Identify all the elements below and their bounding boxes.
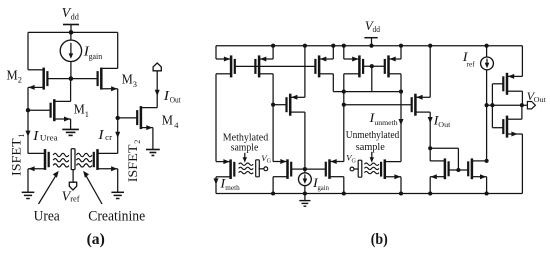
node gate bias (fig a) [69, 76, 74, 81]
label V_G (left) [261, 154, 271, 165]
svg-text:cr: cr [105, 132, 112, 142]
svg-text:Out: Out [438, 120, 451, 129]
label Urea [34, 209, 61, 225]
node line2-PDdrain junction [342, 103, 346, 107]
current arrow I_Out (fig b) [428, 117, 433, 123]
node PE source rail junction [399, 44, 403, 48]
label V_ref [62, 189, 80, 204]
annotation arrow sample to ISFET (right) [370, 152, 374, 163]
transistor PA [216, 55, 235, 77]
wire PC source up [332, 46, 334, 59]
ground M4 source [146, 150, 160, 156]
wire N_m2 gate lead [458, 169, 468, 171]
transistor P_o2 [503, 116, 522, 138]
transistor N_mid [287, 94, 305, 116]
node V_out junction [520, 103, 524, 107]
transistor MB1 follower (left) [273, 159, 291, 179]
ground I_gain (fig b) [299, 201, 310, 207]
wire gate line PD-PE [363, 65, 384, 67]
wire PA drain down to ISFET [215, 74, 217, 162]
terminal V_ref [69, 182, 76, 190]
current source I_gain (fig b) [299, 173, 312, 186]
wire M3 drain up to rail [117, 32, 119, 68]
node bottom Nm2 junction [485, 191, 489, 195]
label I_meth [219, 175, 240, 192]
node bottom MB1 junction [271, 191, 275, 195]
wire M3 source down to ISFET2 [117, 89, 119, 154]
reference electrode bar (fig a) [71, 149, 75, 183]
current arrow I_unmeth [399, 119, 404, 125]
terminal I_Out output (fig a) [153, 63, 161, 71]
wire ISFET meth source down [215, 177, 217, 194]
wire PE source up [400, 46, 402, 59]
svg-text:ISFET: ISFET [10, 138, 24, 176]
wire ground stub (fig b) [304, 194, 306, 201]
wire MB2 drain down [343, 177, 345, 194]
wire M3 gate lead [71, 78, 98, 80]
transistor M3 [98, 68, 118, 92]
label I_cr [97, 128, 112, 143]
label V_G (right) [346, 154, 356, 165]
node PD-PE diode tap [370, 64, 374, 68]
node follower gate junction (left) [303, 167, 307, 171]
wire PB drain down [272, 74, 274, 162]
wire diode drop PD-PE [371, 66, 373, 91]
svg-text:ref: ref [70, 194, 80, 204]
ISFET ISFET2 [76, 149, 117, 171]
wire PD drain down [343, 74, 345, 162]
label I_gain (fig b) [312, 175, 329, 192]
ISFET unmethylated sample [364, 159, 401, 179]
label M4 [162, 113, 179, 130]
terminal V_G (left) [264, 167, 268, 171]
annotation arrow Urea to ISFET1 gate [39, 171, 59, 204]
svg-text:ISFET: ISFET [126, 144, 140, 182]
transistor N_m1 [430, 158, 448, 179]
node N_m2 drain I_ref junction [485, 159, 489, 163]
wire V_out node line [487, 104, 528, 106]
svg-text:dd: dd [71, 12, 80, 22]
svg-text:gain: gain [89, 51, 103, 61]
node bottom ISFET-unmeth junction [399, 191, 403, 195]
wire line1 horizontal [333, 91, 401, 93]
transistor P_o1 [503, 73, 522, 95]
node M1 gate junction [26, 108, 30, 112]
wire V_G to electrode (right) [354, 168, 358, 170]
annotation arrow Creatinine to ISFET2 gate [83, 171, 102, 204]
node PC source rail junction [331, 44, 335, 48]
svg-text:(a): (a) [87, 231, 105, 248]
svg-text:Creatinine: Creatinine [88, 209, 145, 225]
wire M1 source down [70, 119, 72, 129]
svg-text:Urea: Urea [40, 132, 58, 142]
svg-text:I: I [97, 128, 105, 143]
svg-text:meth: meth [225, 183, 240, 192]
wire MB1 drain down [272, 177, 274, 194]
label Methylated sample [223, 133, 268, 154]
label I_ref [462, 49, 475, 69]
wire top rail (fig b) [216, 45, 522, 47]
label I_Urea [32, 129, 58, 144]
wire N_m2 source down [486, 177, 488, 194]
reference electrode bar (unmethylated) [358, 160, 362, 177]
node bottom Nm1 junction [428, 191, 432, 195]
ground M1 source [62, 129, 79, 135]
node bottom MB2 junction [342, 191, 346, 195]
wire top rail (fig a) [28, 31, 118, 33]
wire PE drain down [400, 74, 402, 162]
wire N_mid gate lead [273, 104, 287, 106]
svg-text:M: M [74, 102, 85, 117]
terminal V_G (right) [350, 167, 354, 171]
wire I_ref down [486, 70, 488, 161]
wire MB1 gate lead [291, 168, 305, 170]
label I_Out (fig a) [163, 89, 182, 105]
wire MB2 gate lead [305, 168, 326, 170]
wire M1 gate lead [28, 109, 50, 111]
wire Po1 gate lead [492, 83, 503, 85]
svg-text:M: M [122, 72, 133, 87]
caption (a) [87, 231, 105, 248]
wire ISFET unmeth source down [400, 177, 402, 194]
wire M1 drain up to bias node [70, 79, 72, 102]
label ISFET2 (rotated) [126, 140, 142, 183]
node N_mid source rail junction [303, 44, 307, 48]
svg-text:gain: gain [318, 183, 330, 192]
wire ISFET1 source down [27, 169, 29, 192]
node PD source rail junction [342, 44, 346, 48]
node N_out source rail junction [428, 44, 432, 48]
wire line2 N_out gate [344, 104, 412, 106]
wire M4 source down [152, 128, 154, 149]
wire I_gain to bottom rail [304, 186, 306, 194]
label Creatinine [88, 209, 145, 225]
caption (b) [371, 231, 388, 248]
label M3 [122, 72, 137, 89]
node N_mid gate tap [271, 103, 275, 107]
svg-text:2: 2 [133, 140, 142, 144]
node bottom ISFET-meth junction [215, 192, 217, 194]
svg-text:(b): (b) [371, 231, 388, 248]
transistor MB2 follower (right) [326, 159, 344, 179]
svg-text:G: G [267, 159, 272, 165]
node bottom ground junction [303, 191, 307, 195]
ground ISFET2 source [111, 192, 124, 198]
svg-text:Urea: Urea [34, 209, 61, 225]
wire gate line PA-PB-PC [235, 65, 316, 67]
node line1-PEdrain junction [399, 90, 403, 94]
power symbol V_dd (fig a) [62, 6, 80, 32]
svg-text:Unmethylated: Unmethylated [346, 130, 400, 141]
ground ISFET1 source [22, 192, 35, 198]
transistor N_out [412, 94, 431, 116]
wire rail right end drop to Po1 [521, 46, 523, 77]
svg-text:Out: Out [534, 95, 547, 104]
node V_bias junction [485, 103, 489, 107]
node I_ref rail junction [485, 44, 489, 48]
wire bottom rail (fig b) [216, 193, 522, 195]
current source I_ref [481, 46, 494, 70]
svg-text:1: 1 [85, 109, 89, 119]
node mirror gate junction [456, 168, 460, 172]
svg-text:G: G [352, 158, 357, 164]
current arrow I_Urea [26, 131, 31, 137]
svg-text:sample: sample [356, 142, 386, 153]
label ISFET1 (rotated) [10, 134, 26, 176]
power symbol V_dd (fig b) [364, 18, 380, 46]
node M4 gate junction [116, 116, 120, 120]
wire electrode to V_G terminal (left) [259, 168, 264, 170]
svg-text:1: 1 [17, 134, 26, 138]
node line1-PDdrain junction [342, 90, 346, 94]
svg-text:M: M [7, 67, 18, 82]
wire I_Out line [156, 71, 158, 108]
wire Po2 source up [521, 105, 523, 119]
svg-text:2: 2 [18, 75, 22, 85]
label I_unmeth [368, 110, 397, 127]
reference electrode bar (methylated) [256, 160, 260, 177]
label I_gain (fig a) [83, 44, 103, 60]
node I_Out mirror tap [428, 146, 432, 150]
current arrow I_cr [115, 132, 120, 138]
wire N_out source up [429, 46, 431, 98]
wire N_out drain down I_Out [429, 112, 431, 161]
transistor PC [315, 55, 333, 77]
label M1 [74, 102, 89, 119]
terminal V_Out (fig b) [527, 102, 535, 109]
wire N_m1 gate lead [449, 169, 459, 171]
svg-text:M: M [162, 113, 173, 128]
wire Po2 gate lead [492, 127, 503, 129]
label Unmethylated sample [346, 130, 400, 153]
svg-text:3: 3 [133, 79, 137, 89]
current arrow I_Out (fig a) [155, 90, 160, 96]
wire rail left drop to M2 drain [27, 32, 29, 69]
node PB source rail junction [271, 44, 275, 48]
transistor M4 [137, 106, 157, 130]
wire Po2 drain to corner [518, 134, 522, 194]
current arrow I_meth [214, 178, 219, 184]
svg-text:sample: sample [231, 142, 259, 153]
wire ISFET2 source down [117, 169, 119, 192]
wire N_mid drain down to I_gain [304, 112, 306, 173]
transistor M2 [28, 68, 47, 90]
wire PC drain down to line1 [332, 74, 334, 92]
wire PB source up [272, 46, 274, 59]
svg-text:dd: dd [373, 25, 380, 34]
wire cascode gate bias [491, 84, 493, 128]
wire N_mid source up to rail [304, 46, 306, 98]
label I_Out (fig b) [433, 112, 452, 129]
svg-text:4: 4 [174, 120, 179, 130]
transistor M1 [51, 99, 71, 121]
ISFET methylated sample [216, 159, 253, 179]
wire Po1 drain down [521, 91, 523, 105]
node cascode gate tap [490, 103, 494, 107]
wire M4 gate lead [118, 117, 138, 119]
transistor PE [385, 55, 401, 77]
label M2 [7, 67, 22, 84]
wire M2 gate lead [47, 78, 71, 80]
transistor N_m2 [468, 158, 486, 179]
ISFET ISFET1 [28, 149, 69, 171]
svg-text:unmeth: unmeth [374, 118, 397, 127]
svg-text:Out: Out [170, 94, 182, 104]
wire rail left end drop to PA source [215, 46, 217, 59]
svg-text:ref: ref [467, 60, 475, 69]
label V_Out (fig b) [527, 89, 547, 104]
wire M2 source down to ISFET1 [27, 87, 29, 153]
current source I_gain (fig a) [60, 32, 81, 78]
node V_dd rail junction (fig a) [69, 30, 74, 35]
wire PD source up [343, 46, 345, 59]
wire N_m1 source down [429, 177, 431, 194]
transistor PD [344, 55, 363, 77]
node V_dd tick (fig b) [369, 44, 373, 48]
wire mirror tap across [430, 148, 458, 170]
transistor PB [255, 55, 273, 77]
svg-text:I: I [32, 129, 40, 144]
annotation arrow sample to ISFET (left) [243, 153, 247, 163]
